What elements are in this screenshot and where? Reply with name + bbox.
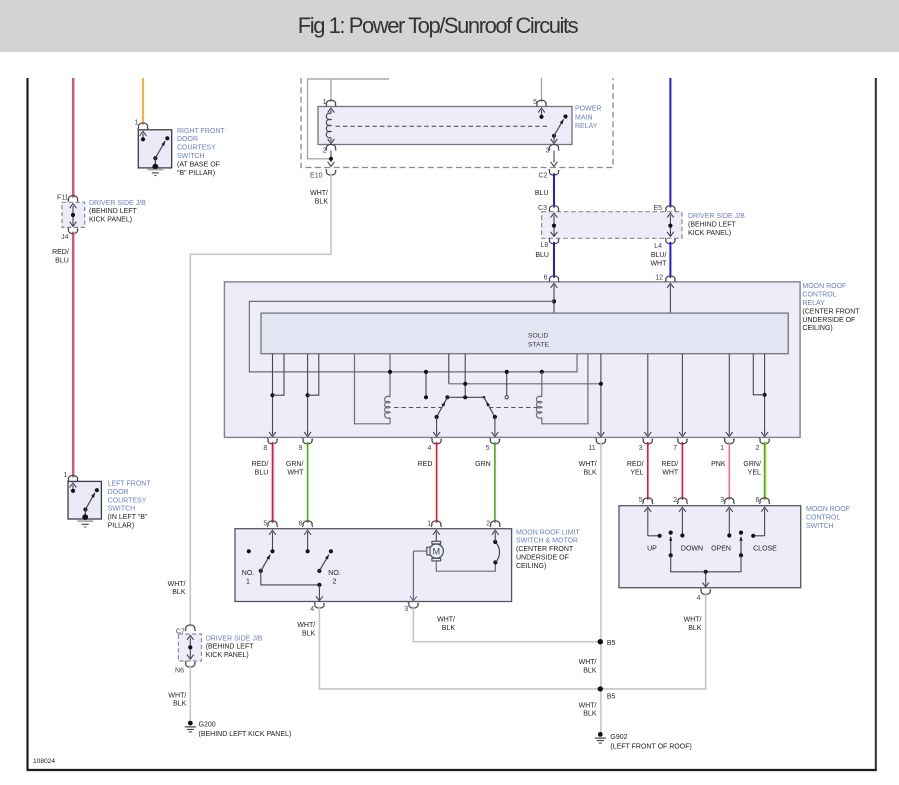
- wire ORG feed: [142, 78, 144, 125]
- svg-text:PNK: PNK: [711, 461, 726, 468]
- svg-text:(CENTER FRONT: (CENTER FRONT: [516, 546, 574, 553]
- wire RED feed top: [72, 78, 74, 198]
- wire RED/BLU to left courtesy switch: [72, 232, 74, 478]
- connector pin 12 relay: [665, 276, 676, 282]
- pin 1 stem: [728, 354, 730, 435]
- svg-text:M: M: [432, 547, 440, 557]
- svg-text:RED/: RED/: [627, 461, 644, 468]
- relay coil power main: [328, 108, 335, 113]
- svg-text:GRN/: GRN/: [286, 461, 304, 468]
- svg-text:2: 2: [333, 579, 337, 586]
- moon roof control switch box: [619, 506, 801, 588]
- svg-text:COURTESY: COURTESY: [108, 497, 147, 504]
- svg-text:WHT/: WHT/: [579, 702, 597, 709]
- connector limit switch pin 2: [490, 521, 501, 527]
- svg-text:5: 5: [639, 497, 643, 504]
- switch arm left courtesy: [95, 488, 99, 492]
- svg-text:MOON ROOF LIMIT: MOON ROOF LIMIT: [516, 529, 581, 536]
- svg-text:RED/: RED/: [52, 249, 69, 256]
- svg-text:6: 6: [544, 274, 548, 281]
- svg-text:BLU/: BLU/: [651, 252, 667, 259]
- moon roof control relay box: [224, 282, 800, 438]
- svg-text:RIGHT FRONT: RIGHT FRONT: [177, 128, 225, 135]
- right relay coil: [540, 370, 544, 374]
- contact ring B: [506, 372, 508, 396]
- fixed contact NO1: [247, 549, 251, 553]
- center post: [464, 354, 466, 398]
- svg-text:G200: G200: [199, 721, 216, 728]
- connector relay pin 8: [267, 438, 278, 444]
- left coil loop: [355, 354, 391, 424]
- connector relay pin 4: [431, 438, 442, 444]
- svg-text:E5: E5: [653, 205, 662, 212]
- connector pin 3 / C2: [549, 144, 560, 150]
- pin 9 stem: [307, 354, 309, 435]
- connector limit switch pin 6: [302, 521, 313, 527]
- svg-text:WHT/: WHT/: [168, 692, 186, 699]
- pin 5 stem: [494, 417, 496, 435]
- svg-text:CONTROL: CONTROL: [802, 292, 836, 299]
- svg-text:WHT/: WHT/: [437, 616, 455, 623]
- driver side J/B (C7-N6): [178, 634, 201, 661]
- connector pin 1: [326, 100, 337, 106]
- switch bridge: [447, 396, 484, 398]
- relay switch left arm: [445, 395, 449, 399]
- svg-text:RED/: RED/: [252, 461, 269, 468]
- connector relay pin 3: [643, 438, 654, 444]
- dashed coupler left: [394, 407, 442, 409]
- svg-text:1: 1: [323, 99, 327, 106]
- connector control switch pin 6: [759, 498, 770, 504]
- svg-text:PILLAR): PILLAR): [108, 523, 134, 530]
- power main relay dashed boundary: [301, 78, 613, 168]
- svg-text:(BEHIND LEFT: (BEHIND LEFT: [89, 208, 138, 215]
- limit switch NO1 arm: [259, 569, 263, 573]
- svg-text:NO.: NO.: [242, 570, 255, 577]
- svg-text:BLK: BLK: [583, 470, 597, 477]
- svg-text:F11: F11: [57, 195, 69, 202]
- junction B5 upper: [598, 639, 603, 644]
- svg-text:BLK: BLK: [315, 199, 329, 206]
- pin 2 stem: [764, 354, 766, 435]
- wire RED/WHT pin7: [681, 442, 683, 500]
- wire RED/BLU pin8: [272, 442, 274, 523]
- connector E5: [665, 206, 676, 212]
- svg-text:RED/: RED/: [661, 461, 678, 468]
- svg-text:BLK: BLK: [302, 630, 316, 637]
- wire RED pin4: [436, 442, 438, 523]
- connector pin 1 left courtesy switch: [68, 475, 79, 481]
- svg-text:BLU: BLU: [535, 190, 549, 197]
- svg-text:STATE: STATE: [528, 342, 549, 349]
- svg-text:Fig 1: Power Top/Sunroof Circu: Fig 1: Power Top/Sunroof Circuits: [298, 13, 579, 38]
- connector pin 1 right courtesy switch: [138, 123, 149, 129]
- pin2 stem motor: [492, 530, 499, 535]
- ground G902: [598, 732, 603, 737]
- connector C3: [549, 206, 560, 212]
- wire feed stub to pin 1 / pin 2 loop: [330, 79, 332, 102]
- svg-text:11: 11: [588, 445, 595, 452]
- svg-text:DRIVER SIDE J/B: DRIVER SIDE J/B: [89, 200, 146, 207]
- svg-text:MOON ROOF: MOON ROOF: [806, 506, 850, 513]
- svg-text:WHT/: WHT/: [579, 659, 597, 666]
- svg-text:OPEN: OPEN: [711, 546, 731, 553]
- svg-text:BLK: BLK: [172, 589, 186, 596]
- svg-text:NO.: NO.: [328, 570, 341, 577]
- motor bottom loop: [436, 561, 495, 571]
- post drop x448.8: [448, 354, 450, 384]
- connector F11: [68, 196, 79, 202]
- svg-text:1: 1: [64, 472, 68, 479]
- motor M: [429, 544, 443, 558]
- connector relay pin 7: [677, 438, 688, 444]
- connector limit switch pin 5: [267, 521, 278, 527]
- wire BLU C2-C3: [553, 173, 555, 207]
- NO1 to pin4 run: [261, 571, 320, 585]
- pin4 junction: [317, 583, 321, 587]
- motor stem pin1: [433, 530, 440, 535]
- motor left wire to pin3: [413, 550, 426, 552]
- connector C7: [185, 625, 196, 631]
- connector limit switch pin 4: [314, 602, 325, 608]
- svg-text:6: 6: [755, 497, 759, 504]
- svg-text:SWITCH: SWITCH: [806, 523, 834, 530]
- svg-text:COURTESY: COURTESY: [177, 145, 216, 152]
- wire WHT/BLK E10 to C7: [190, 173, 331, 627]
- internal bus loop: [249, 301, 577, 372]
- connector limit switch pin 1: [431, 521, 442, 527]
- wire RED/YEL pin3: [647, 442, 649, 500]
- svg-text:(BEHIND LEFT: (BEHIND LEFT: [688, 222, 737, 229]
- connector relay pin 11: [596, 438, 607, 444]
- CLOSE contact: [761, 507, 768, 512]
- svg-text:2: 2: [755, 445, 759, 452]
- svg-text:1: 1: [720, 445, 724, 452]
- svg-text:E10: E10: [310, 172, 323, 179]
- svg-text:4: 4: [697, 595, 701, 602]
- UP contact: [644, 507, 651, 512]
- svg-text:9: 9: [298, 445, 302, 452]
- driver side J/B (F11-J4): [62, 202, 85, 227]
- svg-text:(CENTER FRONT: (CENTER FRONT: [802, 308, 860, 315]
- svg-text:GRN: GRN: [475, 461, 491, 468]
- svg-text:UNDERSIDE OF: UNDERSIDE OF: [802, 317, 855, 324]
- svg-text:BLU: BLU: [255, 470, 269, 477]
- wire GRN/WHT pin9: [307, 442, 309, 523]
- svg-text:5: 5: [533, 99, 537, 106]
- wire GRN/YEL pin2: [764, 442, 766, 500]
- connector control switch pin 2: [677, 498, 688, 504]
- svg-text:"B" PILLAR): "B" PILLAR): [177, 170, 215, 177]
- header band: [0, 0, 899, 52]
- wire PNK pin1: [728, 442, 730, 500]
- power main relay box: [318, 107, 572, 145]
- svg-text:12: 12: [655, 274, 663, 281]
- svg-text:YEL: YEL: [748, 470, 761, 477]
- limit arc contact: [493, 560, 497, 564]
- svg-text:DOOR: DOOR: [177, 136, 198, 143]
- svg-text:1: 1: [427, 521, 431, 528]
- connector relay pin 1: [724, 438, 735, 444]
- switch arm right courtesy: [165, 136, 169, 140]
- svg-text:RELAY: RELAY: [802, 300, 825, 307]
- svg-text:3: 3: [546, 147, 550, 154]
- pin 11 stem: [600, 354, 602, 435]
- wire WHT/BLK control switch pin4 to B5: [600, 593, 705, 689]
- diagram frame bottom: [27, 769, 877, 771]
- wire BLU feed E5: [669, 78, 671, 208]
- svg-text:3: 3: [720, 497, 724, 504]
- svg-text:WHT/: WHT/: [168, 581, 186, 588]
- connector control switch pin 3: [724, 498, 735, 504]
- svg-text:SWITCH & MOTOR: SWITCH & MOTOR: [516, 538, 578, 545]
- wire BLU/WHT L4 to relay pin 12: [669, 242, 671, 278]
- svg-text:RED: RED: [418, 461, 433, 468]
- svg-text:(AT BASE OF: (AT BASE OF: [177, 161, 220, 168]
- connector pin 5: [536, 100, 547, 106]
- svg-text:BLK: BLK: [688, 625, 702, 632]
- svg-text:UP: UP: [647, 546, 657, 553]
- pin 3 stem: [647, 354, 649, 435]
- svg-text:CONTROL: CONTROL: [806, 515, 840, 522]
- svg-text:2: 2: [673, 497, 677, 504]
- svg-text:(BEHIND LEFT: (BEHIND LEFT: [206, 644, 255, 651]
- svg-text:YEL: YEL: [630, 470, 643, 477]
- right front door courtesy switch: [138, 130, 171, 168]
- svg-text:MAIN: MAIN: [575, 114, 593, 121]
- svg-text:KICK PANEL): KICK PANEL): [206, 652, 249, 659]
- rocker arm OPEN/CLOSE: [739, 531, 743, 535]
- svg-text:BLU: BLU: [55, 257, 69, 264]
- pin 9 companion: [308, 354, 319, 396]
- svg-text:BLK: BLK: [442, 625, 456, 632]
- svg-text:KICK PANEL): KICK PANEL): [89, 217, 132, 224]
- driver side J/B (C3/E5): [542, 212, 682, 239]
- wire WHT/BLK pin3 to B5: [413, 606, 600, 642]
- connector pin 2 / E10: [326, 144, 337, 150]
- svg-text:N6: N6: [175, 667, 184, 674]
- svg-text:WHT/: WHT/: [297, 622, 315, 629]
- svg-text:5: 5: [263, 521, 267, 528]
- svg-text:2: 2: [323, 147, 327, 154]
- svg-text:LEFT FRONT: LEFT FRONT: [108, 481, 152, 488]
- connector limit switch pin 3: [408, 602, 419, 608]
- svg-text:(IN LEFT "B": (IN LEFT "B": [108, 514, 148, 521]
- svg-text:DRIVER SIDE J/B: DRIVER SIDE J/B: [688, 213, 745, 220]
- wire WHT/BLK N6 to G200: [189, 665, 191, 720]
- svg-text:4: 4: [310, 606, 314, 613]
- svg-text:BLK: BLK: [583, 711, 597, 718]
- svg-text:L4: L4: [654, 243, 662, 250]
- svg-text:SWITCH: SWITCH: [108, 506, 136, 513]
- svg-text:L8: L8: [541, 242, 549, 249]
- svg-text:BLK: BLK: [583, 667, 597, 674]
- svg-text:3: 3: [404, 606, 408, 613]
- left relay coil: [389, 354, 391, 397]
- svg-text:1: 1: [246, 579, 250, 586]
- svg-text:MOON ROOF: MOON ROOF: [802, 283, 846, 290]
- svg-text:RELAY: RELAY: [575, 123, 598, 130]
- svg-text:WHT/: WHT/: [310, 190, 328, 197]
- contact dot A: [425, 372, 427, 396]
- pin 4 stem: [436, 417, 438, 435]
- pin 2 companion: [753, 354, 764, 395]
- svg-text:POWER: POWER: [575, 106, 601, 113]
- svg-text:5: 5: [486, 445, 490, 452]
- ground G200: [188, 721, 193, 726]
- OPEN contact: [726, 507, 733, 512]
- svg-text:(LEFT FRONT OF ROOF): (LEFT FRONT OF ROOF): [610, 743, 691, 750]
- connector pin 6 relay: [549, 276, 560, 282]
- svg-text:B5: B5: [607, 693, 616, 700]
- pin 12 internal stem: [667, 283, 674, 288]
- svg-text:7: 7: [673, 445, 677, 452]
- pin 6 internal stem: [551, 283, 558, 288]
- wire WHT/BLK pin4 to B5: [319, 606, 600, 689]
- pin 7 stem: [681, 354, 683, 435]
- svg-text:108024: 108024: [33, 758, 55, 765]
- svg-text:3: 3: [639, 445, 643, 452]
- svg-text:KICK PANEL): KICK PANEL): [688, 230, 731, 237]
- ground left courtesy switch: [77, 520, 93, 522]
- moon roof limit switch and motor box: [235, 529, 512, 602]
- connector relay pin 2: [759, 438, 770, 444]
- svg-text:WHT/: WHT/: [579, 461, 597, 468]
- svg-text:J4: J4: [61, 234, 69, 241]
- svg-text:B5: B5: [607, 640, 616, 647]
- svg-text:C2: C2: [539, 172, 548, 179]
- svg-text:6: 6: [298, 521, 302, 528]
- limit switch pin5 stem: [269, 530, 276, 535]
- svg-text:2: 2: [486, 521, 490, 528]
- dashed coupler right: [489, 407, 537, 409]
- svg-text:WHT: WHT: [287, 470, 304, 477]
- diagram frame right: [875, 78, 877, 770]
- svg-text:CEILING): CEILING): [802, 325, 832, 332]
- svg-text:C3: C3: [538, 205, 547, 212]
- wire feed stub pin 5: [541, 78, 543, 102]
- svg-text:CEILING): CEILING): [516, 563, 546, 570]
- svg-text:WHT/: WHT/: [684, 616, 702, 623]
- wire BLU L8 to relay pin 6: [553, 242, 555, 278]
- svg-text:8: 8: [263, 445, 267, 452]
- link bus y383.8: [449, 383, 601, 385]
- pin 8 companion: [273, 354, 285, 396]
- diagram frame left: [26, 78, 28, 770]
- svg-text:SOLID: SOLID: [528, 332, 548, 339]
- svg-text:BLU: BLU: [535, 252, 549, 259]
- svg-text:SWITCH: SWITCH: [177, 153, 205, 160]
- connector control switch pin 5: [643, 498, 654, 504]
- relay internal dashed link: [336, 125, 549, 127]
- pin 8 stem: [272, 354, 274, 435]
- common return U: [671, 555, 741, 571]
- svg-text:DRIVER SIDE J/B: DRIVER SIDE J/B: [206, 635, 263, 642]
- svg-text:1: 1: [134, 120, 138, 127]
- svg-text:4: 4: [427, 445, 431, 452]
- svg-text:GRN/: GRN/: [743, 461, 761, 468]
- svg-text:BLK: BLK: [173, 701, 187, 708]
- svg-text:DOOR: DOOR: [108, 489, 129, 496]
- limit switch NO2 arm: [317, 569, 321, 573]
- svg-text:WHT: WHT: [650, 260, 667, 267]
- relay switch power main: [552, 134, 556, 138]
- connector relay pin 9: [302, 438, 313, 444]
- svg-text:(BEHIND LEFT KICK PANEL): (BEHIND LEFT KICK PANEL): [199, 731, 292, 738]
- connector relay pin 5: [490, 438, 501, 444]
- svg-text:DOWN: DOWN: [681, 546, 703, 553]
- DOWN contact: [679, 507, 686, 512]
- left front door courtesy switch: [68, 481, 101, 519]
- connector control switch pin 4: [700, 589, 711, 595]
- ground right courtesy switch: [147, 169, 163, 171]
- rocker arm UP/DOWN: [669, 531, 673, 535]
- solid state box: [261, 313, 788, 354]
- wire GRN pin5: [494, 442, 496, 523]
- junction B5 lower: [598, 686, 603, 691]
- svg-text:UNDERSIDE OF: UNDERSIDE OF: [516, 555, 569, 562]
- wire WHT/BLK pin11: [600, 442, 602, 733]
- svg-text:CLOSE: CLOSE: [753, 546, 777, 553]
- relay switch right arm: [483, 396, 486, 399]
- svg-text:WHT: WHT: [662, 470, 679, 477]
- limit switch pin6 stem: [304, 530, 311, 535]
- svg-text:G902: G902: [610, 734, 627, 741]
